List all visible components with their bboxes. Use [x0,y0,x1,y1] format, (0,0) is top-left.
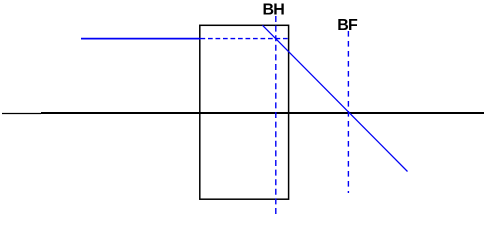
principal plane BH dashed vertical [275,16,277,214]
optical axis main segment [41,112,484,114]
incoming ray solid blue [81,38,201,40]
ray continuation dashed blue [201,38,290,40]
svg-text:BF: BF [337,17,358,34]
svg-text:BH: BH [263,1,285,18]
focal plane BF dashed vertical [347,31,349,193]
lens block rectangle [200,25,289,199]
optical axis thin left segment [2,113,41,115]
refracted ray diagonal blue [263,25,408,171]
